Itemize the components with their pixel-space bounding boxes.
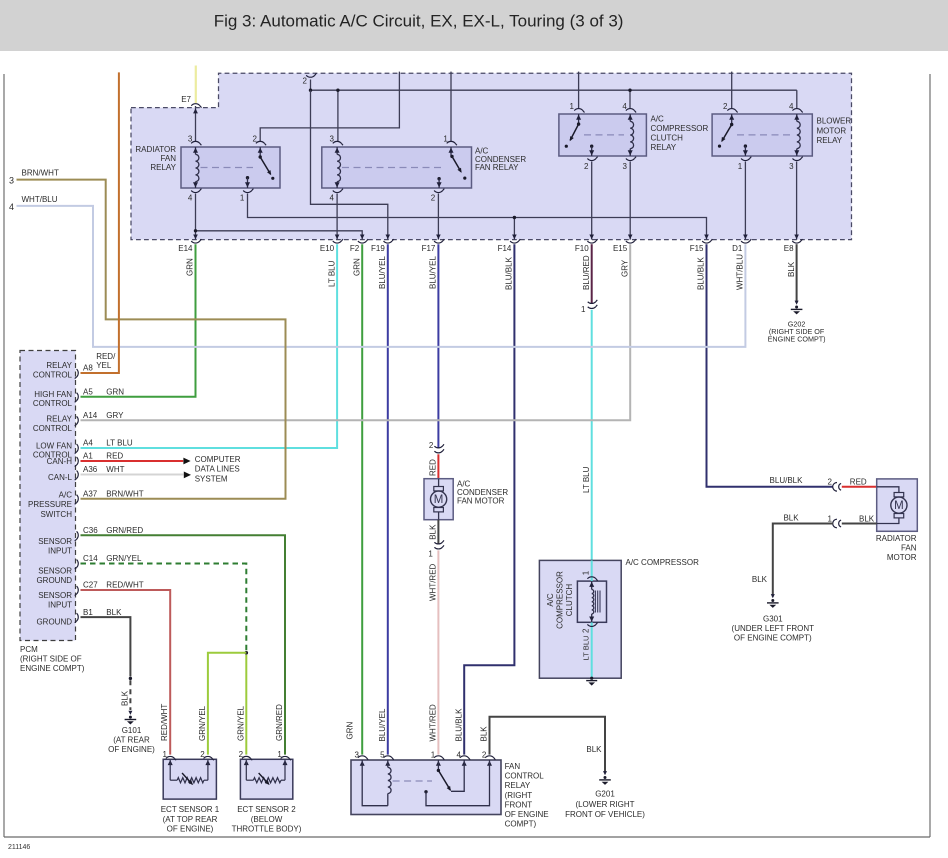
svg-text:1: 1 [570, 102, 575, 111]
svg-text:5: 5 [380, 751, 385, 760]
svg-text:1: 1 [428, 549, 433, 558]
svg-text:(BELOW: (BELOW [251, 815, 283, 824]
svg-text:B1: B1 [83, 608, 93, 617]
svg-text:GRN: GRN [352, 258, 361, 276]
svg-text:2: 2 [723, 102, 728, 111]
svg-text:G301: G301 [763, 614, 783, 623]
svg-text:BLU/BLK: BLU/BLK [454, 708, 463, 742]
svg-text:RED: RED [428, 459, 437, 476]
svg-text:2: 2 [431, 194, 436, 203]
svg-text:PRESSURE: PRESSURE [28, 500, 72, 509]
svg-text:RELAY: RELAY [150, 163, 176, 172]
svg-text:G201: G201 [595, 789, 615, 798]
svg-text:1: 1 [828, 514, 833, 523]
svg-text:RELAY: RELAY [817, 136, 843, 145]
svg-text:A/C: A/C [59, 491, 73, 500]
svg-text:CLUTCH: CLUTCH [651, 134, 684, 143]
svg-text:(RIGHT SIDE OF: (RIGHT SIDE OF [20, 655, 82, 664]
svg-text:ENGINE COMPT): ENGINE COMPT) [20, 664, 85, 673]
svg-text:INPUT: INPUT [48, 600, 72, 609]
svg-text:RELAY: RELAY [651, 143, 677, 152]
svg-text:1: 1 [163, 750, 168, 759]
svg-text:MOTOR: MOTOR [817, 127, 847, 136]
svg-text:GRY: GRY [620, 259, 629, 277]
svg-text:G101: G101 [122, 726, 142, 735]
svg-text:BLOWER: BLOWER [817, 117, 852, 126]
svg-text:211146: 211146 [8, 844, 30, 851]
svg-text:GROUND: GROUND [36, 576, 72, 585]
svg-text:FAN: FAN [505, 762, 521, 771]
svg-text:LT BLU: LT BLU [582, 635, 591, 660]
svg-text:CONTROL: CONTROL [33, 424, 73, 433]
svg-text:M: M [434, 494, 444, 506]
svg-text:BRN/WHT: BRN/WHT [22, 168, 59, 177]
svg-text:CAN-H: CAN-H [47, 457, 73, 466]
svg-text:SENSOR: SENSOR [38, 591, 72, 600]
svg-text:A36: A36 [83, 465, 98, 474]
svg-text:GRY: GRY [106, 411, 124, 420]
svg-text:1: 1 [738, 162, 743, 171]
svg-text:C27: C27 [83, 581, 98, 590]
svg-text:RED/: RED/ [96, 352, 116, 361]
svg-text:ECT SENSOR 2: ECT SENSOR 2 [237, 805, 296, 814]
svg-text:BLK: BLK [752, 575, 768, 584]
svg-text:FAN: FAN [160, 154, 176, 163]
svg-text:BLK: BLK [120, 690, 129, 706]
svg-text:4: 4 [457, 751, 462, 760]
svg-text:FAN RELAY: FAN RELAY [475, 163, 519, 172]
svg-text:M: M [894, 500, 904, 512]
svg-text:CONTROL: CONTROL [33, 370, 73, 379]
svg-text:1: 1 [581, 570, 590, 575]
svg-text:4: 4 [329, 194, 334, 203]
svg-text:LT BLU: LT BLU [582, 466, 591, 493]
svg-text:RED: RED [850, 477, 867, 486]
svg-text:INPUT: INPUT [48, 546, 72, 555]
svg-text:2: 2 [429, 441, 434, 450]
svg-text:CONTROL: CONTROL [33, 399, 73, 408]
svg-text:GRN/RED: GRN/RED [275, 704, 284, 741]
svg-text:ENGINE COMPT): ENGINE COMPT) [768, 334, 826, 343]
svg-text:RED/WHT: RED/WHT [106, 581, 143, 590]
svg-text:BRN/WHT: BRN/WHT [106, 489, 143, 498]
svg-text:C36: C36 [83, 526, 98, 535]
svg-text:SYSTEM: SYSTEM [195, 474, 228, 483]
svg-text:A/C: A/C [651, 115, 665, 124]
svg-text:LT BLU: LT BLU [327, 260, 336, 287]
svg-text:WHT: WHT [106, 465, 124, 474]
svg-text:2: 2 [239, 750, 244, 759]
svg-text:BLU/BLK: BLU/BLK [697, 256, 706, 290]
svg-text:3: 3 [789, 162, 794, 171]
svg-text:OF ENGINE: OF ENGINE [505, 810, 549, 819]
svg-text:RADIATOR: RADIATOR [135, 145, 176, 154]
svg-text:OF ENGINE): OF ENGINE) [108, 745, 155, 754]
svg-text:CAN-L: CAN-L [48, 473, 73, 482]
svg-text:F17: F17 [422, 244, 436, 253]
svg-text:COMPRESSOR: COMPRESSOR [555, 571, 564, 629]
svg-text:RELAY: RELAY [46, 415, 72, 424]
svg-text:E8: E8 [784, 244, 794, 253]
svg-text:ECT SENSOR 1: ECT SENSOR 1 [161, 805, 220, 814]
svg-text:(LOWER RIGHT: (LOWER RIGHT [575, 800, 634, 809]
svg-text:PCM: PCM [20, 645, 38, 654]
svg-text:GRN: GRN [106, 387, 124, 396]
svg-text:GRN: GRN [346, 722, 355, 740]
svg-text:GRN/YEL: GRN/YEL [106, 554, 142, 563]
svg-text:RADIATOR: RADIATOR [876, 534, 917, 543]
svg-text:RELAY: RELAY [46, 361, 72, 370]
svg-text:1: 1 [581, 305, 586, 314]
svg-text:(UNDER LEFT FRONT: (UNDER LEFT FRONT [732, 624, 815, 633]
svg-text:F10: F10 [575, 244, 589, 253]
svg-text:CONTROL: CONTROL [505, 772, 545, 781]
svg-text:BLK: BLK [586, 745, 602, 754]
svg-text:2: 2 [828, 478, 833, 487]
svg-text:C14: C14 [83, 554, 98, 563]
svg-text:4: 4 [188, 194, 193, 203]
svg-text:THROTTLE BODY): THROTTLE BODY) [232, 825, 302, 834]
svg-text:BLK: BLK [480, 726, 489, 742]
svg-text:E7: E7 [181, 95, 191, 104]
svg-text:FRONT: FRONT [505, 800, 533, 809]
svg-text:BLU/YEL: BLU/YEL [378, 708, 387, 741]
svg-text:HIGH FAN: HIGH FAN [34, 390, 72, 399]
svg-text:RELAY: RELAY [505, 781, 531, 790]
svg-text:OF ENGINE COMPT): OF ENGINE COMPT) [734, 633, 812, 642]
svg-text:2: 2 [581, 628, 590, 633]
svg-text:BLK: BLK [783, 514, 799, 523]
svg-text:A8: A8 [83, 364, 93, 373]
svg-text:RED: RED [106, 452, 123, 461]
svg-text:F2: F2 [350, 244, 360, 253]
svg-text:E15: E15 [613, 244, 628, 253]
svg-text:2: 2 [482, 751, 487, 760]
svg-text:1: 1 [277, 750, 282, 759]
svg-text:D1: D1 [732, 244, 743, 253]
svg-text:F19: F19 [371, 244, 385, 253]
svg-text:A5: A5 [83, 387, 93, 396]
svg-text:BLU/YEL: BLU/YEL [378, 256, 387, 289]
svg-text:BLK: BLK [859, 514, 875, 523]
svg-text:Fig 3: Automatic A/C Circuit,: Fig 3: Automatic A/C Circuit, EX, EX-L, … [214, 12, 624, 31]
svg-text:A1: A1 [83, 452, 93, 461]
svg-text:3: 3 [9, 176, 14, 186]
svg-text:2: 2 [253, 134, 258, 143]
svg-text:BLK: BLK [428, 524, 437, 540]
svg-text:3: 3 [623, 162, 628, 171]
svg-text:2: 2 [303, 77, 308, 86]
svg-text:BLU/YEL: BLU/YEL [429, 256, 438, 289]
svg-text:COMPRESSOR: COMPRESSOR [651, 124, 709, 133]
svg-text:OF ENGINE): OF ENGINE) [167, 825, 214, 834]
svg-text:SENSOR: SENSOR [38, 567, 72, 576]
svg-text:F15: F15 [690, 244, 704, 253]
svg-text:FAN: FAN [901, 544, 917, 553]
svg-text:GRN/YEL: GRN/YEL [236, 705, 245, 741]
svg-text:A/C: A/C [546, 593, 555, 607]
svg-text:E14: E14 [178, 244, 193, 253]
svg-text:GRN/YEL: GRN/YEL [198, 705, 207, 741]
svg-text:(AT TOP REAR: (AT TOP REAR [163, 815, 218, 824]
svg-text:2: 2 [584, 162, 589, 171]
svg-text:COMPUTER: COMPUTER [195, 455, 241, 464]
svg-text:2: 2 [200, 750, 205, 759]
svg-text:A/C COMPRESSOR: A/C COMPRESSOR [626, 558, 700, 567]
svg-text:4: 4 [789, 102, 794, 111]
svg-text:YEL: YEL [96, 361, 112, 370]
svg-text:3: 3 [329, 134, 334, 143]
svg-text:FRONT OF VEHICLE): FRONT OF VEHICLE) [565, 810, 645, 819]
svg-text:LT BLU: LT BLU [106, 439, 133, 448]
svg-text:1: 1 [240, 194, 245, 203]
svg-text:SENSOR: SENSOR [38, 537, 72, 546]
svg-text:SWITCH: SWITCH [40, 510, 72, 519]
svg-text:4: 4 [9, 202, 14, 212]
svg-text:GROUND: GROUND [36, 618, 72, 627]
svg-text:3: 3 [188, 134, 193, 143]
svg-text:(RIGHT: (RIGHT [505, 791, 533, 800]
svg-text:WHT/RED: WHT/RED [429, 704, 438, 742]
svg-text:BLK: BLK [787, 261, 796, 277]
svg-text:3: 3 [355, 751, 360, 760]
svg-text:FAN MOTOR: FAN MOTOR [457, 496, 505, 505]
svg-text:DATA LINES: DATA LINES [195, 465, 240, 474]
svg-text:1: 1 [443, 134, 448, 143]
svg-text:F14: F14 [498, 244, 512, 253]
svg-text:GRN/RED: GRN/RED [106, 526, 143, 535]
svg-text:WHT/BLU: WHT/BLU [22, 195, 58, 204]
svg-text:BLK: BLK [106, 608, 122, 617]
svg-text:CLUTCH: CLUTCH [565, 584, 574, 617]
svg-text:E10: E10 [320, 244, 335, 253]
svg-text:WHT/RED: WHT/RED [428, 563, 437, 601]
svg-text:RED/WHT: RED/WHT [160, 704, 169, 741]
svg-text:COMPT): COMPT) [505, 820, 537, 829]
svg-text:A4: A4 [83, 439, 93, 448]
svg-text:MOTOR: MOTOR [887, 553, 917, 562]
svg-text:BLU/RED: BLU/RED [582, 255, 591, 290]
svg-text:LOW FAN: LOW FAN [36, 442, 72, 451]
svg-text:A37: A37 [83, 489, 98, 498]
svg-text:BLU/BLK: BLU/BLK [505, 256, 514, 290]
svg-text:A14: A14 [83, 411, 98, 420]
svg-text:(AT REAR: (AT REAR [113, 735, 150, 744]
svg-text:GRN: GRN [186, 258, 195, 276]
svg-text:WHT/BLU: WHT/BLU [736, 254, 745, 290]
svg-text:4: 4 [622, 102, 627, 111]
svg-text:BLU/BLK: BLU/BLK [770, 476, 804, 485]
svg-text:1: 1 [431, 751, 436, 760]
